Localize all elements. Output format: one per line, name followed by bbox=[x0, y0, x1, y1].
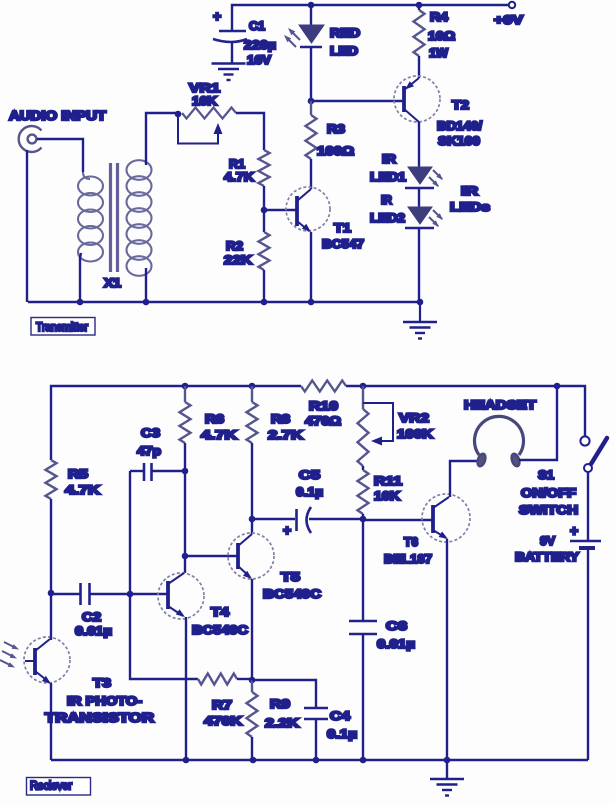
label R1 bbox=[224, 157, 254, 184]
wire R8 to T5 collector bbox=[251, 443, 253, 534]
wire rail to RED LED bbox=[310, 5, 312, 25]
transformer X1 core bbox=[111, 163, 118, 272]
node R5-C2-T3 bbox=[48, 590, 55, 597]
wire switch to battery bbox=[587, 472, 589, 541]
LED RED triangle bbox=[299, 25, 324, 43]
node rail-LED junction bbox=[308, 2, 315, 9]
transistor T1 circle bbox=[286, 187, 330, 231]
svg-text:IR: IR bbox=[461, 184, 478, 198]
svg-text:LEDs: LEDs bbox=[450, 200, 490, 214]
node C6-rail bbox=[360, 757, 367, 764]
wire jack sleeve down bbox=[26, 150, 28, 302]
resistor R4 bbox=[414, 10, 425, 56]
svg-text:SWITCH: SWITCH bbox=[519, 503, 578, 517]
wire secondary bottom to rail bbox=[145, 268, 147, 302]
svg-text:+9V: +9V bbox=[494, 13, 523, 27]
label IR LEDs bbox=[450, 184, 490, 214]
svg-text:2.2K: 2.2K bbox=[265, 716, 299, 730]
node R11-C5-C6-T6base bbox=[360, 516, 367, 523]
transistor T4 circle bbox=[158, 573, 204, 619]
wire R9 to rail bbox=[251, 737, 253, 760]
transistor T5 emitter line bbox=[238, 566, 250, 577]
wire C4 branch bbox=[252, 680, 316, 708]
node primary-rail bbox=[77, 299, 84, 306]
transformer X1 secondary winding bbox=[127, 160, 152, 276]
svg-text:IR: IR bbox=[382, 152, 396, 166]
wire R1 to node bbox=[263, 186, 265, 210]
transistor T5 base bar bbox=[236, 543, 240, 569]
label S1 bbox=[519, 468, 578, 517]
capacitor C6 bbox=[349, 621, 377, 634]
svg-text:R5: R5 bbox=[68, 467, 88, 481]
node C4-rail bbox=[313, 757, 320, 764]
wire node to T2 base bbox=[311, 100, 404, 102]
svg-text:R1: R1 bbox=[229, 157, 245, 171]
resistor R10 bbox=[301, 381, 346, 392]
capacitor C5 polarized bbox=[295, 509, 298, 531]
svg-text:0.01µ: 0.01µ bbox=[75, 624, 112, 638]
node R1-R2-base junction bbox=[261, 207, 268, 214]
transistor T6 circle bbox=[422, 494, 470, 542]
svg-text:4.7K: 4.7K bbox=[201, 428, 237, 442]
resistor R1 bbox=[259, 150, 270, 186]
svg-text:10K: 10K bbox=[192, 94, 217, 108]
transistor T3 emitter line bbox=[35, 671, 49, 682]
wire T2 collector to IR LED1 bbox=[418, 122, 420, 167]
label C5 bbox=[296, 468, 323, 499]
node +9V terminal bbox=[509, 2, 515, 8]
svg-text:C6: C6 bbox=[386, 619, 407, 633]
svg-text:X1: X1 bbox=[104, 276, 121, 290]
audio input jack bbox=[19, 126, 42, 152]
LED2 emission arrows bbox=[429, 210, 442, 226]
LED RED emission arrows bbox=[286, 30, 300, 47]
svg-text:TRANSISTOR: TRANSISTOR bbox=[45, 711, 154, 725]
svg-text:470K: 470K bbox=[204, 714, 242, 728]
wire T6 collector to headset bbox=[450, 461, 477, 497]
LED IR LED1 triangle bbox=[408, 167, 432, 184]
label C1 bbox=[244, 19, 276, 67]
phototransistor T3 circle bbox=[24, 637, 70, 683]
svg-text:C3: C3 bbox=[141, 426, 160, 440]
svg-text:T2: T2 bbox=[452, 98, 469, 112]
node R8-C5-T5collector bbox=[249, 516, 256, 523]
battery 9V bbox=[570, 540, 601, 542]
svg-text:R3: R3 bbox=[327, 122, 345, 136]
svg-text:R4: R4 bbox=[430, 10, 448, 24]
capacitor C4 bbox=[304, 708, 328, 719]
wire receiver top rail right bbox=[346, 386, 585, 436]
label X1 bbox=[104, 276, 121, 290]
svg-text:10Ω: 10Ω bbox=[428, 29, 455, 43]
svg-text:BD140/: BD140/ bbox=[437, 119, 483, 133]
wire T4 emitter to rail bbox=[185, 617, 187, 760]
label T1 bbox=[322, 221, 364, 251]
wire transmitter bottom rail bbox=[28, 301, 420, 303]
svg-text:R11: R11 bbox=[374, 474, 402, 488]
label HEADSET bbox=[464, 398, 537, 412]
wire R3 to T1 collector bbox=[310, 159, 312, 189]
svg-text:R10: R10 bbox=[309, 399, 338, 413]
transistor T2 circle bbox=[394, 76, 440, 122]
node R6-C3 bbox=[182, 468, 189, 475]
wire battery to bottom rail bbox=[587, 548, 589, 760]
label VR1 bbox=[189, 81, 220, 108]
svg-text:T4: T4 bbox=[211, 605, 229, 619]
node LED2-rail-ground bbox=[417, 299, 424, 306]
svg-text:C2: C2 bbox=[82, 610, 101, 624]
wire VR1 right to R1 bbox=[236, 113, 264, 150]
wire headset right to rail bbox=[519, 386, 557, 460]
label battery plus bbox=[570, 523, 578, 539]
label Reciever box bbox=[27, 778, 91, 796]
node rail-headset bbox=[554, 383, 561, 390]
resistor R2 bbox=[259, 232, 270, 270]
label C1 plus bbox=[213, 8, 221, 24]
label T6 bbox=[384, 535, 432, 566]
svg-text:R2: R2 bbox=[226, 239, 243, 253]
label AUDIO INPUT bbox=[9, 109, 106, 123]
wire VR2 to R11 bbox=[362, 466, 364, 470]
switch S1 bbox=[580, 436, 592, 472]
svg-text:R7: R7 bbox=[212, 698, 232, 712]
svg-text:T3: T3 bbox=[93, 676, 111, 690]
transistor T1 emitter bbox=[297, 221, 309, 231]
wire C2 to T4 base bbox=[90, 593, 169, 595]
label C6 bbox=[377, 619, 415, 651]
label C4 bbox=[327, 709, 357, 741]
svg-text:16V: 16V bbox=[247, 53, 271, 67]
capacitor C3 bbox=[144, 463, 152, 481]
svg-text:LED1: LED1 bbox=[370, 170, 406, 184]
svg-text:BEL187: BEL187 bbox=[384, 552, 432, 566]
svg-text:22K: 22K bbox=[224, 253, 252, 267]
transistor T5 circle bbox=[228, 533, 274, 579]
svg-text:BC549C: BC549C bbox=[192, 623, 248, 637]
wire T3 emitter to rail bbox=[50, 683, 52, 760]
wire R5 to C2 node bbox=[50, 499, 52, 593]
wire R7 right to node bbox=[237, 678, 252, 680]
transistor T3 collector line bbox=[35, 639, 50, 651]
svg-text:T6: T6 bbox=[404, 535, 418, 549]
label +9V bbox=[494, 13, 523, 27]
transistor T4 base bar bbox=[166, 581, 170, 609]
LED IR LED2 triangle bbox=[408, 207, 432, 224]
wire primary bottom to rail bbox=[80, 253, 81, 302]
wire receiver top rail left bbox=[51, 386, 301, 460]
wire LED1 to LED2 bbox=[418, 188, 420, 207]
svg-text:C4: C4 bbox=[330, 709, 350, 723]
node T1-rail bbox=[308, 299, 315, 306]
potentiometer VR2 bbox=[358, 386, 369, 466]
transistor T6 emitter line bbox=[433, 530, 446, 538]
resistor R5 bbox=[46, 460, 57, 499]
svg-text:LED2: LED2 bbox=[370, 211, 405, 225]
wire LED to node bbox=[310, 47, 312, 101]
svg-text:+: + bbox=[283, 522, 291, 538]
svg-text:IR: IR bbox=[381, 193, 392, 207]
label IR LED2 bbox=[370, 193, 405, 225]
ground below C1 bbox=[212, 64, 246, 81]
wire T4 collector to T5 base bbox=[185, 555, 238, 557]
wire jack tip to transformer primary bbox=[37, 139, 83, 172]
node rail-VR2 bbox=[360, 383, 367, 390]
wire C5 right bbox=[309, 518, 363, 520]
ground receiver bbox=[446, 760, 448, 778]
wire LED2 to rail bbox=[418, 228, 420, 302]
wire node to R2 bbox=[263, 210, 265, 232]
svg-text:R9: R9 bbox=[270, 697, 290, 711]
wire +9V top rail bbox=[232, 5, 509, 31]
label R9 bbox=[265, 697, 299, 730]
LED RED cathode bar bbox=[300, 46, 322, 49]
capacitor C1 bbox=[213, 31, 247, 42]
label VR2 bbox=[397, 411, 433, 441]
transistor T2 collector bbox=[404, 109, 419, 122]
wire C3 right bbox=[152, 470, 186, 472]
wire C1 to ground bbox=[231, 41, 233, 63]
svg-text:+: + bbox=[570, 523, 578, 539]
svg-text:SK100: SK100 bbox=[438, 134, 480, 148]
svg-text:0.01µ: 0.01µ bbox=[377, 637, 415, 651]
transistor T6 collector line bbox=[433, 497, 449, 508]
svg-text:BC547: BC547 bbox=[322, 237, 364, 251]
wire C6 to rail bbox=[362, 634, 364, 760]
node R2-rail bbox=[261, 299, 268, 306]
label T5 bbox=[263, 570, 321, 601]
svg-text:100Ω: 100Ω bbox=[317, 144, 354, 158]
LED IR LED2 cathode bar bbox=[405, 227, 434, 230]
svg-text:R6: R6 bbox=[205, 412, 224, 426]
node C2-C3-R7 junction bbox=[127, 591, 134, 598]
node secondary-rail bbox=[143, 299, 150, 306]
wire node column C3-R7 bbox=[130, 471, 198, 679]
node T4 collector-T5 base bbox=[182, 553, 189, 560]
transistor T2 emitter PNP bbox=[404, 78, 419, 90]
wire C4 to rail bbox=[315, 719, 317, 760]
label R6 bbox=[201, 412, 237, 442]
node rail-R8 bbox=[249, 383, 256, 390]
label R3 bbox=[317, 122, 354, 158]
svg-text:IR PHOTO-: IR PHOTO- bbox=[67, 694, 142, 708]
label Transmitter box bbox=[31, 318, 95, 336]
transformer X1 primary winding bbox=[78, 172, 103, 262]
svg-text:R8: R8 bbox=[271, 412, 290, 426]
node LED-R3-base junction bbox=[308, 98, 315, 105]
transistor T4 emitter line bbox=[168, 606, 183, 616]
svg-text:4.7K: 4.7K bbox=[224, 170, 254, 184]
T3 base stub bbox=[25, 660, 35, 662]
wire T3 collector up bbox=[50, 593, 52, 640]
node rail-R4 bbox=[416, 2, 423, 9]
label C3 bbox=[137, 426, 161, 458]
transistor T6 base bar bbox=[431, 505, 435, 533]
wire C3 left bbox=[130, 470, 144, 472]
label 9V BATTERY bbox=[515, 534, 579, 564]
transistor T5 collector line bbox=[238, 534, 252, 546]
LED IR LED1 cathode bar bbox=[405, 187, 434, 190]
transistor T3 base bar bbox=[33, 648, 37, 675]
VR2 wiper bbox=[363, 403, 393, 441]
label R7 bbox=[204, 698, 242, 728]
wire node to T6 base bbox=[363, 519, 433, 521]
resistor R7 bbox=[198, 674, 237, 685]
wire R4 to T2 emitter bbox=[418, 56, 420, 78]
capacitor C2 bbox=[81, 583, 90, 605]
svg-text:Reciever: Reciever bbox=[30, 781, 72, 793]
resistor R11 bbox=[358, 470, 369, 514]
wire node to C6 bbox=[362, 519, 364, 621]
resistor R8 bbox=[247, 386, 258, 443]
resistor R3 bbox=[306, 101, 317, 159]
ground transmitter bbox=[419, 302, 421, 321]
svg-text:220µ: 220µ bbox=[244, 38, 276, 52]
node rail-R6 bbox=[182, 383, 189, 390]
label R4 bbox=[428, 10, 455, 60]
svg-text:470Ω: 470Ω bbox=[305, 414, 341, 428]
svg-text:RED: RED bbox=[330, 26, 360, 40]
svg-text:2.7K: 2.7K bbox=[268, 428, 303, 442]
label R10 bbox=[305, 399, 341, 428]
svg-text:VR1: VR1 bbox=[189, 81, 220, 95]
wire base T1 bbox=[264, 209, 297, 211]
wire R2 to bottom rail bbox=[263, 270, 265, 302]
node T4-rail bbox=[183, 757, 190, 764]
node R7-R9-C4-T5emitter bbox=[249, 677, 256, 684]
label T2 bbox=[437, 98, 483, 148]
potentiometer VR1 bbox=[182, 108, 236, 119]
svg-text:C5: C5 bbox=[299, 468, 320, 482]
svg-text:C1: C1 bbox=[249, 19, 265, 33]
svg-text:10K: 10K bbox=[374, 489, 400, 503]
transistor T1 collector bbox=[297, 189, 311, 201]
label T4 bbox=[192, 605, 248, 637]
svg-text:S1: S1 bbox=[538, 468, 554, 482]
svg-text:4.7K: 4.7K bbox=[65, 483, 100, 497]
label C5 plus bbox=[283, 522, 291, 538]
svg-text:0.1µ: 0.1µ bbox=[296, 485, 323, 499]
wire T6 emitter to rail bbox=[446, 539, 448, 760]
svg-text:+: + bbox=[213, 8, 221, 24]
label R5 bbox=[65, 467, 100, 497]
transistor T2 base bar bbox=[402, 86, 406, 112]
svg-text:BC549C: BC549C bbox=[263, 587, 321, 601]
label RED LED bbox=[330, 26, 360, 58]
resistor R6 bbox=[180, 386, 191, 443]
wire receiver bottom rail bbox=[51, 759, 588, 761]
label C2 bbox=[75, 610, 112, 638]
svg-text:LED: LED bbox=[330, 44, 358, 58]
label R8 bbox=[268, 412, 303, 442]
label T3 bbox=[45, 676, 154, 725]
wire T5 emitter down bbox=[251, 579, 253, 680]
node T6-rail-ground bbox=[444, 757, 451, 764]
wire secondary top bbox=[146, 113, 178, 165]
node VR1 left junction bbox=[175, 111, 182, 118]
transistor T1 base bar bbox=[295, 196, 299, 226]
T3 light arrows bbox=[0, 642, 16, 666]
headset symbol bbox=[475, 416, 524, 455]
wire C2 left bbox=[51, 593, 80, 595]
svg-text:T1: T1 bbox=[334, 221, 351, 235]
svg-text:1W: 1W bbox=[429, 46, 449, 60]
svg-text:VR2: VR2 bbox=[399, 411, 429, 425]
svg-text:9V: 9V bbox=[540, 534, 555, 548]
svg-text:AUDIO INPUT: AUDIO INPUT bbox=[9, 109, 106, 123]
svg-text:T5: T5 bbox=[281, 570, 300, 584]
label R11 bbox=[374, 474, 402, 503]
VR1 wiper bbox=[178, 114, 218, 144]
wire R11 to node bbox=[362, 514, 364, 519]
transistor T4 collector line bbox=[168, 573, 184, 584]
wire C5 left bbox=[252, 518, 295, 520]
svg-text:Transmitter: Transmitter bbox=[36, 322, 88, 334]
svg-text:BATTERY: BATTERY bbox=[515, 550, 579, 564]
node R9-rail bbox=[250, 757, 257, 764]
svg-text:HEADSET: HEADSET bbox=[464, 398, 537, 412]
svg-text:47p: 47p bbox=[137, 444, 161, 458]
wire T1 emitter to rail bbox=[310, 232, 312, 302]
wire R6 to T4 collector bbox=[184, 443, 186, 573]
svg-text:100K: 100K bbox=[397, 427, 433, 441]
label R2 bbox=[224, 239, 252, 267]
resistor R9 bbox=[247, 680, 258, 737]
label IR LED1 bbox=[370, 152, 406, 184]
LED1 emission arrows bbox=[429, 170, 442, 186]
svg-text:ON/OFF: ON/OFF bbox=[521, 486, 576, 500]
svg-text:0.1µ: 0.1µ bbox=[327, 727, 357, 741]
